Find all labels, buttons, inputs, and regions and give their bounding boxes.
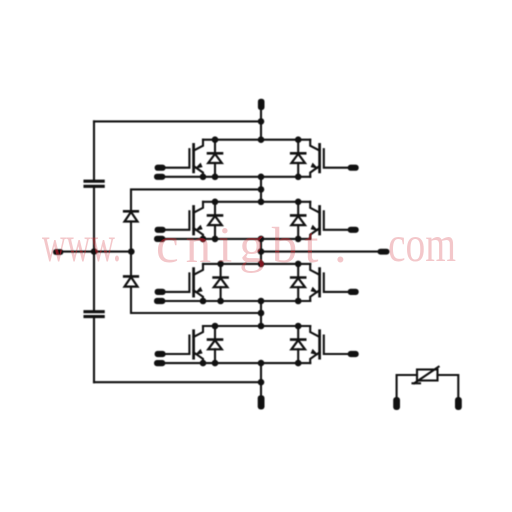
transistor Q8 (row4 right IGBT) — [310, 326, 359, 363]
wire: left bus middle segment — [93, 188, 95, 310]
capacitor C1 — [85, 181, 103, 186]
capacitor C2 — [85, 312, 103, 317]
terminal pad DC+ (top) — [258, 99, 265, 110]
row 3: collector rail — [203, 263, 310, 265]
node: clamp diode midpoint — [128, 248, 135, 255]
transistor Q4 (row2 right IGBT) — [310, 202, 359, 239]
wire: center bus row2-row3 link — [260, 239, 262, 264]
diode D7 — [208, 323, 222, 367]
wire: center bus row1-row2 link — [260, 177, 262, 202]
node: row1 collector center — [258, 136, 265, 143]
wire: clamp chain upper — [131, 189, 261, 211]
diode D5 — [214, 261, 228, 305]
thermistor RT1 — [413, 367, 439, 384]
wire: clamp chain lower — [131, 287, 261, 313]
wire: top pad stub to row1 collector rail — [260, 109, 262, 140]
diode D9 (upper clamp) — [124, 211, 138, 221]
terminal pad AC (right) — [378, 249, 390, 255]
row 3: emitter rail — [203, 300, 310, 302]
row 4: emitter rail — [203, 362, 310, 364]
transistor Q1 (row1 left IGBT) — [154, 140, 206, 180]
node: clamp top junction on center bus — [258, 186, 265, 193]
wire: clamp chain mid upper — [130, 222, 132, 252]
transistor Q6 (row3 right IGBT) — [310, 264, 359, 301]
row 1: collector rail — [203, 139, 310, 141]
diode D2 — [291, 136, 305, 180]
wire: AC output to right pad — [261, 251, 378, 253]
watermark www.cnigbt.com (pink layer) — [42, 220, 121, 271]
row 4: collector rail — [203, 325, 310, 327]
wire: top horizontal to left DC bus — [94, 120, 261, 122]
node: clamp bottom junction on center bus — [258, 310, 265, 317]
node: capacitor midpoint — [91, 248, 98, 255]
diode D8 — [291, 323, 305, 367]
wire: left DC+ bus upper segment — [93, 121, 95, 179]
wire: clamp chain mid lower — [130, 252, 132, 277]
transistor Q3 (row2 left IGBT) — [154, 202, 206, 242]
wire: thermistor left lead — [397, 375, 417, 398]
diode D6 — [291, 261, 305, 305]
wire: center bus row3-row4 link — [260, 301, 262, 326]
wire: neutral midpoint horizontal — [62, 251, 131, 253]
node: AC output junction — [258, 248, 265, 255]
wire: center bus to bottom pad — [260, 363, 262, 396]
transistor Q7 (row4 left IGBT) — [154, 326, 206, 366]
terminal pad thermistor right — [455, 397, 462, 410]
diode D1 — [208, 136, 222, 180]
wire: thermistor right lead — [438, 375, 459, 398]
watermark www.cnigbt.com (red-over-black layer) — [42, 220, 121, 271]
node: bottom bus junction — [258, 379, 265, 386]
diode D4 — [291, 199, 305, 243]
row 2: emitter rail — [203, 238, 310, 240]
transistor Q5 (row3 left IGBT) — [154, 264, 206, 304]
node: top bus junction — [258, 118, 265, 125]
row 2: collector rail — [203, 201, 310, 203]
terminal pad DC- (bottom) — [258, 395, 265, 409]
wire: bottom horizontal to left bus — [94, 381, 261, 383]
terminal pad N (left midpoint) — [53, 249, 63, 255]
transistor Q2 (row1 right IGBT) — [310, 140, 359, 177]
row 1: emitter rail — [203, 176, 310, 178]
terminal pad thermistor left — [393, 397, 400, 410]
diode D10 (lower clamp) — [124, 276, 138, 286]
wire: left bus lower segment — [93, 318, 95, 382]
diode D3 — [208, 199, 222, 243]
